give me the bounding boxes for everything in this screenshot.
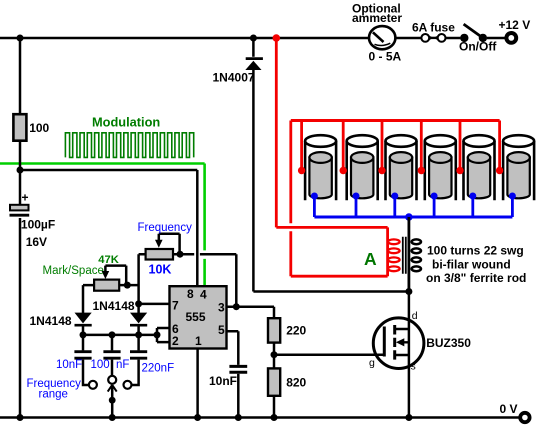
svg-text:On/Off: On/Off	[459, 40, 497, 54]
svg-text:5: 5	[218, 323, 225, 337]
transistor Q1 BUZ350	[373, 292, 424, 418]
node: rail junction cap	[17, 414, 24, 421]
wire: pin 3 output lead	[227, 307, 275, 319]
wire: top +12V rail	[0, 37, 369, 40]
potentiometer VR2 47K Mark/Space	[83, 266, 139, 313]
wire: split to pins 6 and 2	[157, 328, 170, 342]
svg-text:100µF: 100µF	[21, 217, 55, 231]
svg-text:range: range	[39, 389, 68, 401]
node: split junction	[154, 331, 161, 338]
node: pin 3 junction	[233, 303, 240, 310]
svg-text:10nF: 10nF	[56, 359, 82, 371]
svg-text:Mark/Space: Mark/Space	[43, 265, 104, 277]
switch S1 On/Off	[460, 24, 487, 42]
capacitor C5 220nF	[130, 335, 147, 385]
node: blue junction to winding	[405, 213, 413, 221]
svg-text:+: +	[22, 191, 29, 205]
node: pin 7 junction	[135, 300, 142, 307]
svg-text:100: 100	[29, 121, 49, 135]
wire: blue coil bus	[314, 216, 512, 219]
svg-text:+12 V: +12 V	[499, 18, 531, 32]
fuse F1 6A	[421, 34, 445, 42]
capacitor C2 10nF at pin 5	[229, 366, 247, 417]
svg-text:555: 555	[186, 310, 206, 324]
svg-text:d: d	[412, 310, 418, 322]
node: gate junction	[271, 351, 278, 358]
svg-text:100: 100	[91, 359, 110, 371]
node: row junction 2	[109, 331, 116, 338]
ammeter M1	[369, 26, 395, 49]
node: red tap on +12V rail	[273, 34, 281, 42]
transformer T1: red winding loops	[388, 239, 400, 271]
wire: pin 7 lead	[139, 303, 170, 306]
svg-text:10K: 10K	[149, 263, 172, 277]
coil L2	[340, 121, 378, 218]
svg-text:220: 220	[286, 324, 306, 338]
svg-text:0 - 5A: 0 - 5A	[369, 49, 402, 63]
svg-text:1: 1	[195, 334, 202, 348]
wire: green modulation line horizontal	[0, 162, 205, 165]
wire: gate lead	[274, 353, 383, 356]
svg-text:10nF: 10nF	[209, 374, 237, 388]
svg-text:16V: 16V	[26, 235, 47, 249]
node: drain junction	[405, 288, 412, 295]
resistor R3 820	[268, 355, 280, 418]
diode D1 1N4007	[245, 38, 263, 292]
transformer T1: black winding loops	[412, 239, 421, 271]
svg-text:BUZ350: BUZ350	[426, 336, 471, 350]
node: row junction 3	[135, 331, 142, 338]
wire: rail ammeter to fuse	[396, 37, 422, 40]
capacitor C1 100uF	[10, 191, 30, 216]
transformer T1: ferrite rod core	[403, 237, 406, 274]
wire: pot feedback wire pin3 riser	[173, 254, 236, 307]
wire: rail switch to +12V terminal	[487, 37, 505, 40]
terminal 0V	[520, 413, 529, 422]
potentiometer VR1 10K	[139, 234, 184, 313]
coil L3	[378, 121, 416, 218]
svg-text:0 V: 0 V	[500, 402, 518, 416]
svg-text:3: 3	[218, 301, 225, 315]
svg-text:220nF: 220nF	[142, 363, 175, 375]
wire: black winding vertical (drain side)	[407, 217, 410, 292]
terminal +12V	[506, 33, 516, 43]
wire: resistor to cap junction	[19, 141, 22, 205]
node: rail junction pin1	[194, 414, 201, 421]
svg-text:bi-filar wound: bi-filar wound	[432, 257, 511, 271]
svg-text:100 turns 22 swg: 100 turns 22 swg	[427, 243, 524, 257]
coil L1	[298, 121, 336, 218]
svg-text:1N4148: 1N4148	[30, 314, 72, 328]
wire: rail fuse to switch	[445, 37, 460, 40]
svg-text:Frequency: Frequency	[138, 222, 193, 234]
node: rail junction 10nF	[235, 414, 242, 421]
resistor R2 220	[268, 318, 280, 355]
svg-text:6A fuse: 6A fuse	[412, 21, 455, 35]
svg-text:s: s	[411, 361, 416, 373]
node: rail junction 820	[271, 414, 278, 421]
wire: Vcc feed vertical to 555 pin 8	[196, 170, 199, 287]
waveform: modulation square wave	[65, 133, 193, 158]
svg-text:Modulation: Modulation	[92, 115, 160, 130]
diode D3 1N4148 right	[130, 313, 147, 335]
coil L4	[418, 121, 456, 218]
wire: ground rail	[0, 416, 519, 419]
node: rail junction source	[405, 414, 412, 421]
wire: Vcc feed horizontal	[20, 169, 197, 172]
diode D2 1N4148 left	[75, 313, 92, 335]
wire: red coil bus	[291, 119, 500, 122]
svg-text:ammeter: ammeter	[352, 11, 402, 25]
wire: left vertical from rail to resistor	[19, 38, 22, 114]
capacitor C3 10nF	[74, 335, 91, 385]
coil L6	[496, 121, 534, 218]
IC U1 555	[170, 286, 227, 348]
wire: green modulation line vertical to pin 4	[203, 164, 206, 288]
svg-text:on 3/8" ferrite rod: on 3/8" ferrite rod	[426, 271, 526, 285]
wire: diode to drain node	[253, 290, 409, 293]
node: row junction 1	[80, 331, 87, 338]
svg-text:4: 4	[200, 288, 207, 302]
capacitor C4 100nF	[103, 335, 120, 376]
switch S2 frequency range selector	[89, 376, 132, 418]
node: rail junction selector	[109, 414, 116, 421]
svg-text:7: 7	[172, 299, 179, 313]
svg-text:1N4148: 1N4148	[93, 299, 135, 313]
node: junction top-left	[17, 35, 24, 42]
svg-text:820: 820	[286, 375, 306, 389]
wire: timing junction row	[83, 334, 157, 337]
wire: red +12V drop to winding top	[276, 38, 387, 276]
svg-text:A: A	[364, 249, 377, 269]
node: junction diode top	[250, 35, 257, 42]
svg-text:8: 8	[187, 287, 194, 301]
svg-text:1N4007: 1N4007	[213, 70, 255, 84]
svg-text:2: 2	[172, 334, 179, 348]
svg-text:g: g	[369, 357, 375, 369]
node: junction at modulation tap	[17, 167, 24, 174]
resistor R1 100	[13, 114, 26, 141]
wire: pin 5 lead	[227, 331, 239, 365]
wire: cap to ground rail	[19, 218, 22, 418]
wire: red coil bus vertical to winding bottom	[291, 121, 388, 277]
wire: pin 1 ground lead	[196, 349, 199, 418]
svg-text:nF: nF	[116, 359, 129, 371]
coil L5	[456, 121, 494, 218]
